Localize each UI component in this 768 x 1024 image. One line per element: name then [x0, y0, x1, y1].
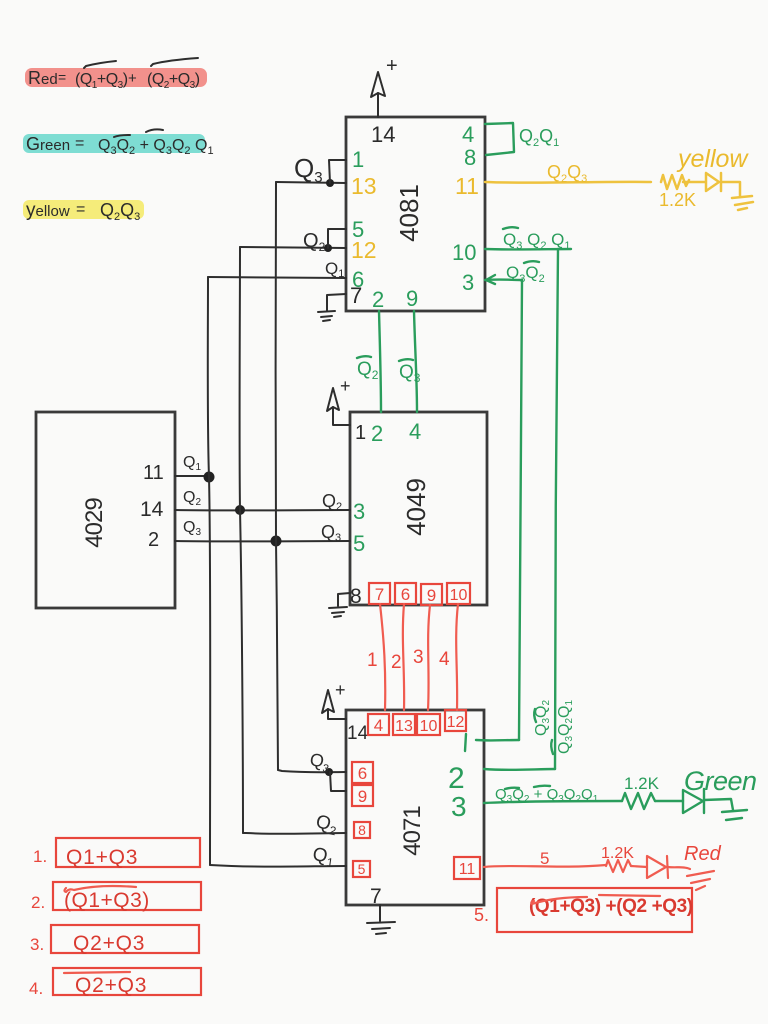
- svg-text:4071: 4071: [399, 806, 426, 856]
- svg-text:3: 3: [451, 791, 467, 822]
- svg-text:2: 2: [372, 287, 384, 312]
- svg-text:9: 9: [406, 286, 418, 311]
- svg-text:9: 9: [358, 787, 367, 806]
- wire green vertical bus A Q3bar Q2 Q1: [555, 249, 558, 769]
- U4 pin 8 red box: [354, 822, 370, 838]
- wire red 4 U3 pin10 to U4 pin12: [456, 604, 458, 710]
- svg-text:14: 14: [347, 723, 369, 744]
- wire U4 pin11 red output: [484, 865, 606, 867]
- svg-text:3.: 3.: [30, 935, 44, 954]
- svg-text:4: 4: [462, 122, 474, 147]
- wire U1 pin9 to U3 pin4 Q3bar: [414, 311, 417, 412]
- U4 pin 9 red box: [352, 785, 373, 806]
- svg-text:4: 4: [374, 716, 383, 735]
- wire U1 pin1 link: [329, 160, 346, 183]
- wire Q1 to U4 pin5: [210, 865, 346, 867]
- LED D3 red: [647, 856, 668, 878]
- svg-text:=: =: [76, 201, 85, 218]
- wire U4 pin3 green output: [484, 801, 622, 803]
- svg-text:Red: Red: [28, 68, 58, 88]
- node Q2 junction at 4029: [235, 505, 245, 515]
- node Q3 junction at 4029: [271, 536, 282, 547]
- svg-text:+: +: [335, 680, 346, 700]
- label Q3bar: [399, 359, 421, 385]
- wire U4 pin1 to bus B: [476, 739, 519, 742]
- svg-text:Q3Q2Q1: Q3Q2Q1: [556, 700, 575, 754]
- node Q2 junction at U1: [324, 244, 332, 252]
- wire Q1 vertical bus: [208, 277, 211, 865]
- svg-text:1.: 1.: [33, 847, 47, 866]
- green formula text Green = Q3 Q2bar + Q3bar Q2 Q1: [26, 129, 214, 157]
- svg-text:11: 11: [143, 462, 164, 484]
- svg-text:Q1+Q3: Q1+Q3: [66, 846, 138, 869]
- wire U1 pin5 link: [328, 229, 346, 248]
- red result text (Q1+Q3)bar + (Q2+Q3)bar: [529, 895, 693, 917]
- svg-text:=: =: [58, 69, 66, 85]
- wire U1 pin3 output Q3 Q2bar: [485, 278, 522, 281]
- wire U1 pin10 output Q3bar Q2 Q1: [485, 248, 571, 251]
- svg-text:4029: 4029: [81, 498, 108, 548]
- LED D2 green: [683, 789, 704, 813]
- svg-text:4.: 4.: [29, 979, 43, 998]
- label Q2bar: [357, 356, 379, 382]
- IC U2 4029 counter box: [36, 412, 175, 608]
- label Q3 Q2bar: [506, 261, 545, 285]
- svg-text:1.2K: 1.2K: [659, 190, 696, 210]
- node Q3 junction at U1: [326, 179, 334, 187]
- U1 pin7 ground wire: [327, 294, 346, 311]
- svg-text:=: =: [75, 135, 84, 152]
- node Q3 junction at U4: [325, 768, 333, 776]
- svg-text:11: 11: [459, 861, 476, 878]
- svg-text:10: 10: [452, 240, 476, 265]
- svg-text:+: +: [340, 376, 351, 396]
- svg-text:2: 2: [371, 421, 383, 446]
- arrowhead into pin3: [486, 275, 495, 284]
- svg-text:1.2K: 1.2K: [601, 845, 634, 862]
- U4 pin 10 red box: [417, 714, 440, 735]
- label rotated Q3bar Q2 Q1 on bus A: [551, 700, 575, 754]
- svg-text:Q2+Q3: Q2+Q3: [75, 974, 147, 997]
- svg-text:4049: 4049: [401, 478, 431, 536]
- LED D1 yellow: [706, 173, 721, 191]
- svg-text:Red: Red: [684, 843, 722, 865]
- wire U1 pin11 yellow output Q2Q3: [485, 181, 651, 184]
- wire U4 pin2 to bus A: [484, 768, 555, 771]
- U4 pin 13 red box: [393, 714, 415, 735]
- svg-text:2: 2: [391, 652, 402, 673]
- svg-text:3: 3: [413, 647, 424, 668]
- wire Q2 vertical bus: [240, 247, 243, 833]
- wire Q2 to U1 pin12: [240, 247, 346, 248]
- svg-text:Green: Green: [26, 134, 70, 154]
- svg-text:9: 9: [427, 586, 436, 605]
- svg-text:yellow: yellow: [26, 200, 70, 221]
- svg-text:3: 3: [462, 270, 474, 295]
- svg-text:4081: 4081: [394, 184, 424, 242]
- U3 ground symbol: [329, 607, 347, 617]
- U4 pin 11 red box: [454, 857, 480, 879]
- svg-text:5.: 5.: [474, 905, 489, 925]
- yellow formula highlight: [23, 200, 144, 219]
- svg-text:10: 10: [420, 718, 438, 735]
- svg-text:1: 1: [355, 422, 366, 444]
- label green output expression: [495, 786, 599, 805]
- list box 2: [53, 882, 201, 910]
- svg-text:13: 13: [395, 718, 413, 735]
- svg-text:6: 6: [358, 764, 367, 783]
- U3 pin 7 red box: [369, 583, 390, 604]
- svg-text:Q2+Q3: Q2+Q3: [73, 932, 145, 955]
- U4 pin 4 red box: [368, 714, 389, 735]
- svg-text:10: 10: [450, 587, 468, 604]
- svg-text:14: 14: [371, 122, 395, 147]
- svg-text:8: 8: [358, 822, 366, 838]
- wire Q2 to U4 pin8: [243, 832, 346, 835]
- U4 ground symbol: [367, 922, 395, 934]
- red result box 5: [497, 888, 692, 932]
- svg-text:3: 3: [353, 499, 365, 524]
- red formula highlight: [25, 68, 207, 87]
- svg-text:5: 5: [540, 849, 549, 868]
- svg-text:8: 8: [464, 145, 476, 170]
- wire red 2 U3 pin6 to U4 pin13: [403, 604, 404, 710]
- svg-text:7: 7: [375, 585, 384, 604]
- wire Q3 vertical bus: [276, 182, 278, 770]
- U3 pin 10 red box: [447, 583, 470, 604]
- wire yellow LED to ground: [721, 182, 740, 197]
- svg-text:+: +: [386, 55, 398, 77]
- label Q3bar Q2 Q1: [503, 227, 571, 252]
- wire resistor to red LED: [631, 866, 647, 867]
- svg-text:13: 13: [351, 173, 377, 199]
- svg-text:12: 12: [351, 237, 377, 263]
- wire Q3 to U4 pin6: [278, 770, 346, 772]
- svg-text:11: 11: [455, 173, 479, 199]
- U3 VDD power arrow: [327, 376, 351, 425]
- U4 pin 1 green tick: [465, 734, 466, 751]
- yellow formula text yellow = Q2Q3: [26, 200, 140, 223]
- IC U1 4081 AND-gate box: [346, 117, 485, 311]
- svg-text:6: 6: [401, 585, 410, 604]
- IC U3 4049 inverter box: [350, 412, 487, 605]
- svg-text:Green: Green: [684, 766, 757, 796]
- U3 pin8 ground wire: [338, 593, 350, 606]
- svg-text:4: 4: [409, 419, 421, 444]
- wire resistor to yellow LED: [683, 181, 705, 184]
- U3 pin 6 red box: [395, 583, 416, 604]
- svg-text:5: 5: [353, 531, 365, 556]
- svg-text:yellow: yellow: [676, 145, 749, 173]
- green formula highlight: [23, 134, 205, 153]
- yellow ground symbol: [732, 196, 753, 210]
- svg-text:14: 14: [140, 498, 164, 521]
- svg-text:1: 1: [367, 650, 378, 671]
- list box 3: [51, 925, 199, 953]
- list box 1: [56, 838, 200, 867]
- list text 2 (Q1+Q3) with overline: [64, 886, 150, 912]
- wire U2 pin2 Q3 to U3 pin5: [175, 540, 350, 542]
- wire U2 pin11 Q1 stub: [175, 475, 209, 477]
- U4 pin 5 red box: [353, 861, 370, 877]
- resistor R1 yellow 1.2K: [661, 175, 689, 189]
- U1 ground symbol: [318, 311, 335, 321]
- red formula text Red = (Q1+Q3)bar + (Q2+Q3)bar: [28, 58, 200, 91]
- svg-text:5: 5: [358, 861, 366, 877]
- wire resistor to green LED: [655, 800, 683, 802]
- wire Q3 to U1 pin13: [276, 182, 346, 183]
- svg-text:4: 4: [439, 649, 450, 670]
- wire green LED to ground: [704, 799, 733, 810]
- wire red 3 U3 pin9 to U4 pin10: [428, 605, 430, 710]
- U4 pin 12 red box: [445, 710, 466, 731]
- svg-text:2.: 2.: [31, 893, 45, 912]
- wire red LED to ground: [668, 867, 690, 869]
- list text 4 Q2+Q3 with overline: [64, 972, 147, 997]
- svg-text:7: 7: [350, 283, 362, 308]
- U3 pin 9 red box: [421, 584, 442, 605]
- wire U2 pin14 Q2 to U3 pin3: [175, 509, 350, 511]
- IC U4 4071 OR-gate box: [346, 710, 484, 905]
- svg-text:8: 8: [350, 585, 362, 608]
- U4 VDD power arrow: [322, 680, 346, 719]
- list box 4: [53, 968, 201, 995]
- U1 VDD power arrow: [371, 55, 398, 117]
- resistor R2 green 1.2K: [622, 793, 655, 809]
- svg-text:+: +: [128, 70, 137, 87]
- wire U1 pin2 to U3 pin2 Q2bar: [379, 311, 381, 412]
- wire Q1 to U1 pin6: [208, 277, 346, 278]
- svg-text:1: 1: [352, 147, 364, 172]
- wire U1 pins 4-8 tie bracket: [485, 123, 514, 155]
- svg-text:(Q1+Q3): (Q1+Q3): [64, 889, 150, 912]
- node Q1 junction at 4029: [204, 472, 215, 483]
- svg-text:1.2K: 1.2K: [624, 774, 660, 793]
- U4 pin 6 red box: [352, 762, 373, 783]
- green ground symbol: [722, 810, 747, 820]
- svg-text:2: 2: [148, 529, 159, 551]
- red ground symbol slanted: [687, 871, 714, 890]
- resistor R3 red 1.2K: [606, 860, 631, 872]
- wire red 1 U3 pin7 to U4 pin4: [380, 604, 385, 710]
- wire green vertical bus B Q3 Q2bar: [519, 280, 522, 740]
- U4 pin7 ground wire: [379, 905, 381, 921]
- label rotated Q3 Q2bar on bus B: [533, 700, 552, 736]
- svg-text:12: 12: [447, 714, 465, 731]
- svg-text:Q3 Q2 Q1: Q3 Q2 Q1: [503, 230, 571, 252]
- wire U4 pin9 link: [330, 772, 346, 791]
